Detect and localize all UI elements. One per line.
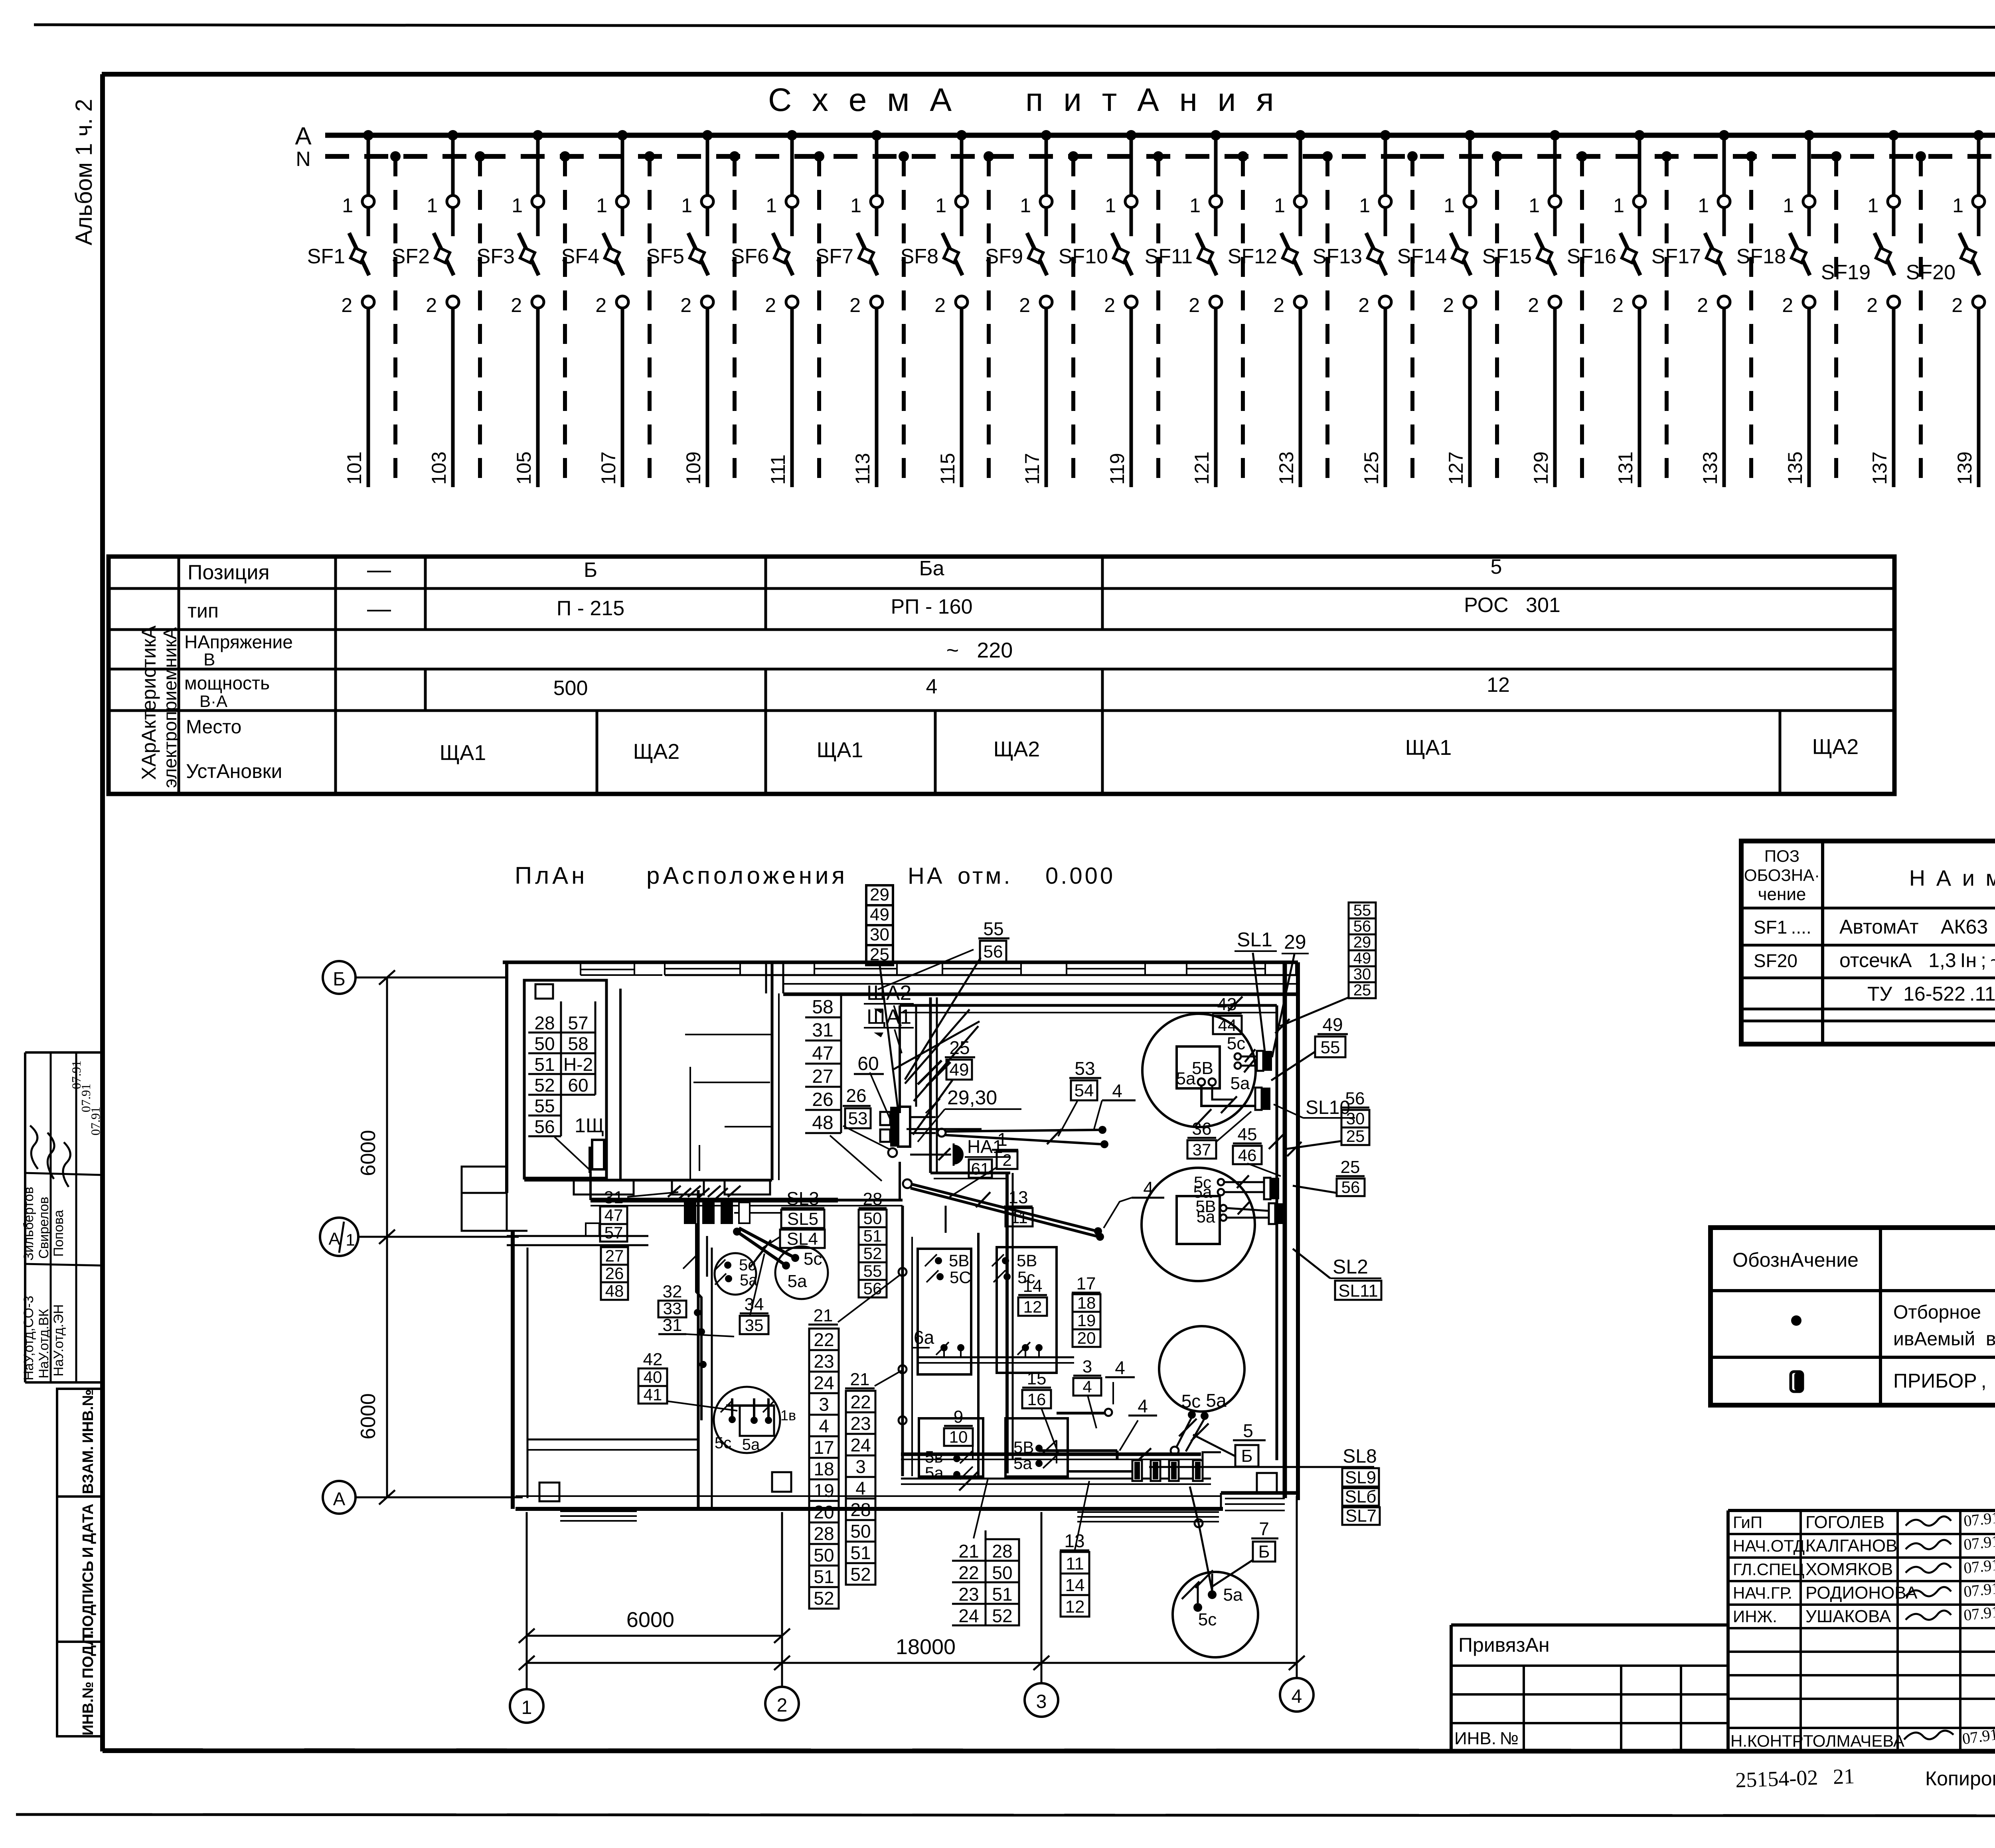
labels 14/12 xyxy=(1018,1294,1047,1296)
equipment box 4 (5v/5a) xyxy=(1005,1418,1068,1477)
wall: bottom windows xyxy=(1225,1498,1285,1499)
stack right top 55/56/29/49/30/25 xyxy=(1349,902,1376,918)
svg-text:53: 53 xyxy=(1075,1058,1095,1079)
bus N xyxy=(325,154,1995,159)
svg-text:П - 215: П - 215 xyxy=(557,597,624,620)
svg-text:25: 25 xyxy=(1341,1157,1360,1177)
svg-text:1: 1 xyxy=(1952,194,1963,217)
legend device symbol xyxy=(1791,1372,1803,1392)
wires instrument row xyxy=(1068,1470,1132,1473)
svg-text:56: 56 xyxy=(1345,1089,1365,1108)
wire from box4 to right xyxy=(1039,1449,1117,1452)
circuit breaker SF18, line 135 xyxy=(1804,130,1814,140)
svg-text:103: 103 xyxy=(428,452,450,485)
labels 45/46 xyxy=(1233,1143,1262,1145)
svg-text:2: 2 xyxy=(1358,294,1369,316)
labels 25/49 xyxy=(945,1056,975,1058)
svg-text:—: — xyxy=(367,595,391,622)
svg-text:ХАрАктеристикА: ХАрАктеристикА xyxy=(138,625,160,780)
svg-text:SF9: SF9 xyxy=(985,245,1023,268)
svg-text:105: 105 xyxy=(513,452,535,485)
svg-text:ИНВ. №: ИНВ. № xyxy=(1454,1729,1519,1748)
leader 53/54 xyxy=(1058,1101,1077,1136)
svg-text:1: 1 xyxy=(1867,194,1878,217)
stack 25/56 (right) xyxy=(1336,1175,1365,1177)
svg-text:Ба: Ба xyxy=(919,557,944,580)
svg-text:2: 2 xyxy=(849,294,861,316)
svg-text:2: 2 xyxy=(1002,1151,1011,1169)
frame top xyxy=(102,72,1995,77)
tank circle 2 (right) xyxy=(1142,1168,1255,1281)
stack top-left room xyxy=(528,1032,561,1034)
svg-text:2: 2 xyxy=(511,294,522,316)
svg-text:3: 3 xyxy=(1036,1691,1047,1712)
riser from panel x2255 xyxy=(899,1005,901,1113)
tank1 wires xyxy=(1241,1056,1257,1058)
svg-text:4: 4 xyxy=(1082,1377,1092,1396)
wire cluster to SL5 xyxy=(734,1212,781,1214)
lower-left room partition xyxy=(527,1439,698,1441)
svg-text:55: 55 xyxy=(1353,902,1371,919)
svg-text:SL1: SL1 xyxy=(1237,928,1272,951)
axis circle B xyxy=(323,961,356,994)
wall: bottom pilasters xyxy=(539,1483,559,1501)
leader 29/49/30/25 to panel xyxy=(880,965,898,1108)
svg-text:14: 14 xyxy=(1023,1276,1043,1296)
riser x2262 down xyxy=(901,1206,904,1476)
svg-text:6000: 6000 xyxy=(626,1608,674,1632)
svg-text:Б: Б xyxy=(333,969,346,990)
svg-text:29: 29 xyxy=(870,885,889,904)
porch xyxy=(462,1167,507,1231)
svg-text:2: 2 xyxy=(1782,294,1793,316)
svg-text:5В: 5В xyxy=(1017,1251,1037,1270)
svg-text:101: 101 xyxy=(343,452,365,485)
svg-text:107: 107 xyxy=(597,452,620,485)
svg-text:18000: 18000 xyxy=(896,1635,956,1659)
svg-text:25154-02 21: 25154-02 21 xyxy=(1735,1764,1855,1792)
svg-text:4: 4 xyxy=(819,1416,829,1436)
svg-text:1Щ: 1Щ xyxy=(575,1114,604,1137)
svg-text:Н.КОНТР: Н.КОНТР xyxy=(1730,1732,1803,1750)
svg-text:131: 131 xyxy=(1614,452,1637,485)
svg-text:137: 137 xyxy=(1869,452,1891,485)
tank circle 1 (top right) xyxy=(1142,1014,1256,1127)
svg-text:07.91: 07.91 xyxy=(1963,1508,1995,1530)
svg-text:SF7: SF7 xyxy=(816,245,853,268)
svg-text:5В: 5В xyxy=(949,1251,969,1270)
svg-text:07.91: 07.91 xyxy=(88,1107,103,1135)
svg-text:57: 57 xyxy=(604,1223,623,1242)
wire pair A to dots xyxy=(938,1129,946,1137)
svg-text:50: 50 xyxy=(992,1562,1012,1583)
tick on bottom tray xyxy=(1133,1448,1151,1465)
stack SL3/SL5/SL4 xyxy=(781,1207,824,1209)
circuit breaker SF4, line 107 xyxy=(617,130,628,140)
svg-text:52: 52 xyxy=(863,1244,882,1263)
svg-text:А: А xyxy=(333,1489,346,1509)
wall x1730 upper xyxy=(689,1067,691,1180)
svg-text:22: 22 xyxy=(850,1392,871,1412)
svg-text:тип: тип xyxy=(188,600,219,622)
terminal cluster in corridor xyxy=(685,1202,695,1223)
svg-text:ЩА2: ЩА2 xyxy=(994,737,1040,761)
svg-text:5: 5 xyxy=(1243,1420,1253,1441)
corridor tray ticks xyxy=(668,1186,681,1197)
wires cluster to pump2 xyxy=(733,1228,741,1236)
privyazan box xyxy=(1451,1623,1728,1627)
svg-text:20: 20 xyxy=(1077,1329,1096,1347)
svg-text:Позиция: Позиция xyxy=(188,561,270,584)
circuit breaker SF19, line 137 xyxy=(1888,130,1899,140)
circuit breaker SF17, line 133 xyxy=(1719,130,1729,140)
svg-text:07.91: 07.91 xyxy=(1963,1556,1995,1577)
svg-text:22: 22 xyxy=(958,1562,979,1583)
dim line 18000 xyxy=(527,1662,1297,1664)
bottom tray xyxy=(901,1453,1201,1456)
instrument row xyxy=(1132,1460,1142,1481)
corridor pilasters xyxy=(574,1180,634,1194)
svg-text:SF20: SF20 xyxy=(1906,261,1955,284)
svg-text:28: 28 xyxy=(850,1499,871,1520)
svg-text:5а: 5а xyxy=(788,1271,807,1291)
svg-text:44: 44 xyxy=(1218,1016,1237,1035)
vzam inv box xyxy=(57,1389,102,1497)
svg-text:32: 32 xyxy=(663,1282,682,1301)
svg-text:SF17: SF17 xyxy=(1651,245,1701,268)
svg-text:Н А и м е н о в А н и е: Н А и м е н о в А н и е xyxy=(1909,865,1995,890)
wall: top outer xyxy=(503,961,1298,964)
pump circle 1 xyxy=(715,1253,756,1295)
label 4 (pair A) xyxy=(1102,1100,1136,1102)
svg-text:133: 133 xyxy=(1699,452,1721,485)
stack 56/30/25 xyxy=(1341,1107,1369,1109)
svg-text:ТУ 16-522 .110-74: ТУ 16-522 .110-74 xyxy=(1867,983,1995,1005)
svg-text:58: 58 xyxy=(568,1033,588,1054)
svg-text:SF11: SF11 xyxy=(1145,245,1193,268)
svg-text:SF14: SF14 xyxy=(1397,245,1447,268)
circuit breaker SF12, line 123 xyxy=(1295,130,1306,140)
svg-text:49: 49 xyxy=(870,905,889,924)
svg-text:1: 1 xyxy=(512,194,523,217)
labels 13/11 xyxy=(1004,1206,1033,1208)
svg-text:6000: 6000 xyxy=(357,1393,380,1439)
svg-text:50: 50 xyxy=(863,1209,882,1228)
wall lower-left room right xyxy=(697,1190,700,1509)
svg-text:22: 22 xyxy=(814,1329,834,1350)
main riser path xyxy=(929,997,932,1173)
svg-text:1: 1 xyxy=(521,1697,532,1718)
corridor tray xyxy=(591,1198,838,1202)
svg-text:SF19: SF19 xyxy=(1821,261,1871,284)
svg-text:НАЧ.ГР.: НАЧ.ГР. xyxy=(1733,1583,1792,1602)
svg-text:5а: 5а xyxy=(740,1271,758,1289)
svg-text:1: 1 xyxy=(997,1129,1007,1150)
svg-text:SL2: SL2 xyxy=(1333,1256,1368,1278)
svg-text:ГиП: ГиП xyxy=(1733,1513,1762,1532)
svg-text:4: 4 xyxy=(1138,1396,1148,1416)
svg-text:SLб: SLб xyxy=(1345,1487,1376,1506)
svg-text:1: 1 xyxy=(1444,194,1455,217)
circuit breaker SF15, line 129 xyxy=(1550,130,1560,140)
corridor lower wall xyxy=(507,1235,648,1237)
svg-text:ивАемый в технологическое о: ивАемый в технологическое оборУдовАние xyxy=(1893,1329,1995,1350)
svg-text:25: 25 xyxy=(949,1037,970,1058)
svg-text:ЩА1: ЩА1 xyxy=(1405,736,1452,760)
svg-text:30: 30 xyxy=(1353,965,1371,983)
stack 17/18/19/20 xyxy=(1072,1292,1100,1294)
svg-text:мощность: мощность xyxy=(184,673,270,693)
svg-text:1: 1 xyxy=(427,194,438,217)
svg-text:Место: Место xyxy=(186,717,241,738)
svg-text:36: 36 xyxy=(1192,1119,1212,1139)
svg-text:21: 21 xyxy=(814,1306,833,1325)
svg-text:2: 2 xyxy=(1443,294,1454,316)
svg-text:2: 2 xyxy=(426,294,437,316)
svg-text:1: 1 xyxy=(346,1230,355,1249)
svg-text:чение: чение xyxy=(1758,885,1806,904)
svg-text:4: 4 xyxy=(1292,1686,1302,1707)
svg-text:50: 50 xyxy=(534,1033,555,1054)
tray: right side vertical xyxy=(1276,1005,1278,1460)
svg-text:41: 41 xyxy=(644,1385,662,1404)
svg-text:56: 56 xyxy=(1341,1178,1360,1196)
label 4 with circle term xyxy=(1105,1376,1135,1378)
X marks on top tray xyxy=(1228,997,1242,1011)
panel ShchA1/ShchA2 xyxy=(890,1107,898,1147)
label 4 second xyxy=(1128,1415,1157,1417)
svg-text:ОБОЗНА·: ОБОЗНА· xyxy=(1744,866,1820,885)
svg-text:49: 49 xyxy=(1322,1014,1343,1035)
svg-text:5а: 5а xyxy=(1231,1074,1250,1093)
svg-text:SF6: SF6 xyxy=(731,245,769,268)
svg-text:57: 57 xyxy=(568,1013,588,1033)
wire pair B xyxy=(903,1179,912,1188)
svg-text:26: 26 xyxy=(846,1085,866,1106)
svg-text:ЩА1: ЩА1 xyxy=(867,1005,911,1029)
svg-text:24: 24 xyxy=(850,1435,871,1455)
svg-text:~ 220: ~ 220 xyxy=(946,638,1013,662)
svg-text:28: 28 xyxy=(814,1523,834,1544)
svg-text:31: 31 xyxy=(812,1020,833,1041)
tank2 instruments xyxy=(1264,1178,1270,1199)
svg-text:ИНВ.№ ПОДЛ.: ИНВ.№ ПОДЛ. xyxy=(80,1631,97,1735)
svg-text:SF1 ....: SF1 .... xyxy=(1754,917,1811,938)
svg-text:48: 48 xyxy=(812,1112,833,1133)
svg-text:5с: 5с xyxy=(804,1249,822,1269)
svg-text:15: 15 xyxy=(1027,1369,1047,1388)
svg-text:SF2: SF2 xyxy=(392,245,430,268)
long stack right (21..52) xyxy=(845,1388,875,1390)
svg-text:5В: 5В xyxy=(1192,1058,1213,1078)
svg-text:12: 12 xyxy=(1487,673,1510,697)
circuit breaker SF14, line 127 xyxy=(1465,130,1475,140)
svg-text:1: 1 xyxy=(1274,194,1285,217)
svg-text:ГОГОЛЕВ: ГОГОЛЕВ xyxy=(1805,1512,1884,1532)
svg-text:отсечкА 1,3 Iн ; ~220 В: отсечкА 1,3 Iн ; ~220 В xyxy=(1839,949,1995,971)
svg-text:19: 19 xyxy=(814,1480,834,1501)
svg-text:2: 2 xyxy=(595,294,606,316)
svg-text:135: 135 xyxy=(1784,452,1806,485)
svg-text:ЩА1: ЩА1 xyxy=(817,738,863,762)
svg-text:3: 3 xyxy=(1082,1357,1092,1376)
wall divider x1935 upper xyxy=(771,962,774,1180)
svg-text:2: 2 xyxy=(777,1695,788,1716)
svg-text:29: 29 xyxy=(1353,934,1371,951)
svg-text:4: 4 xyxy=(1143,1178,1154,1198)
wall: left outer lower xyxy=(511,1231,515,1509)
stack 58/31/47/27/26/48 xyxy=(805,1017,841,1019)
svg-text:1: 1 xyxy=(766,194,777,217)
circuit breaker SF3, line 105 xyxy=(533,130,543,140)
svg-text:ПлАн: ПлАн xyxy=(515,862,588,889)
svg-text:1: 1 xyxy=(935,194,946,217)
svg-text:SF15: SF15 xyxy=(1482,245,1532,268)
svg-text:4: 4 xyxy=(1115,1357,1125,1378)
svg-text:9: 9 xyxy=(954,1407,963,1427)
svg-text:31: 31 xyxy=(663,1315,682,1335)
svg-text:17: 17 xyxy=(814,1437,834,1458)
partitions upper-mid xyxy=(685,1034,773,1035)
tank2 wires xyxy=(1224,1181,1264,1183)
svg-text:37: 37 xyxy=(1193,1140,1211,1159)
svg-text:52: 52 xyxy=(992,1605,1012,1626)
long stack left (21..52) xyxy=(808,1324,838,1326)
svg-text:07.91: 07.91 xyxy=(1963,1532,1995,1554)
svg-text:60: 60 xyxy=(857,1053,879,1074)
svg-text:23: 23 xyxy=(850,1413,871,1434)
axis 3 xyxy=(1041,1512,1043,1683)
svg-text:SF3: SF3 xyxy=(477,245,515,268)
svg-text:48: 48 xyxy=(605,1281,624,1300)
leader from 21-28 stack up xyxy=(974,1479,988,1538)
svg-text:1: 1 xyxy=(1529,194,1540,217)
svg-text:НаУ.отд.ЭН: НаУ.отд.ЭН xyxy=(51,1304,66,1376)
wire from bottom circle up xyxy=(1190,1487,1212,1591)
wall divider x1555 xyxy=(619,989,622,1180)
svg-text:123: 123 xyxy=(1275,452,1298,485)
svg-text:45: 45 xyxy=(1238,1125,1257,1144)
circuit breaker SF9, line 117 xyxy=(1041,130,1051,140)
svg-text:2: 2 xyxy=(1189,294,1200,316)
svg-text:2: 2 xyxy=(934,294,946,316)
label 4 (pair B) xyxy=(1132,1197,1164,1199)
svg-text:5а: 5а xyxy=(1013,1454,1032,1473)
svg-text:SF4: SF4 xyxy=(561,245,599,268)
svg-text:50: 50 xyxy=(850,1521,871,1542)
riser to pump big xyxy=(696,1223,701,1420)
svg-text:58: 58 xyxy=(812,997,833,1018)
svg-text:ЩА1: ЩА1 xyxy=(440,741,486,765)
leader to wall from 25 box top right xyxy=(878,950,974,989)
svg-text:электроприемникА: электроприемникА xyxy=(160,627,180,788)
svg-text:51: 51 xyxy=(863,1226,882,1245)
svg-text:ПривязАн: ПривязАн xyxy=(1458,1634,1550,1656)
svg-text:КопировАл: НесмеяновА, Тлд: КопировАл: НесмеяновА, Тлд xyxy=(1925,1767,1995,1790)
svg-text:23: 23 xyxy=(814,1351,834,1372)
labels 5 B xyxy=(1233,1439,1266,1441)
svg-text:51: 51 xyxy=(850,1542,871,1563)
svg-text:40: 40 xyxy=(644,1368,662,1386)
circuit breaker SF16, line 131 xyxy=(1634,130,1645,140)
labels 34/35 xyxy=(740,1313,768,1315)
svg-text:ТОЛМАЧЕВА: ТОЛМАЧЕВА xyxy=(1803,1732,1904,1750)
svg-text:2: 2 xyxy=(1612,294,1624,316)
svg-text:2: 2 xyxy=(680,294,691,316)
svg-text:УстАновки: УстАновки xyxy=(186,760,282,782)
svg-text:ПРИБОР , РЕГУЛЯТОР: ПРИБОР , РЕГУЛЯТОР xyxy=(1893,1370,1995,1392)
svg-text:SL7: SL7 xyxy=(1345,1506,1377,1526)
labels 7 B xyxy=(1251,1538,1278,1540)
svg-text:12: 12 xyxy=(1065,1597,1085,1617)
svg-text:121: 121 xyxy=(1191,452,1213,485)
svg-text:SL8: SL8 xyxy=(1343,1446,1377,1467)
svg-text:53: 53 xyxy=(848,1109,868,1128)
labels 36/37 xyxy=(1187,1137,1216,1139)
svg-text:НаУ.отд.ВК: НаУ.отд.ВК xyxy=(36,1309,51,1378)
title block xyxy=(1728,1509,1995,1512)
svg-text:5а: 5а xyxy=(1206,1390,1227,1411)
svg-text:SF20: SF20 xyxy=(1754,950,1797,971)
svg-text:1в: 1в xyxy=(780,1407,796,1424)
svg-text:SL3: SL3 xyxy=(786,1188,819,1209)
svg-text:SF12: SF12 xyxy=(1228,245,1277,268)
svg-text:2: 2 xyxy=(1867,294,1878,316)
svg-text:1: 1 xyxy=(1105,194,1116,217)
stack 29/49/30/25 (above panel) xyxy=(866,885,893,905)
svg-text:113: 113 xyxy=(851,453,874,485)
svg-text:29: 29 xyxy=(1284,931,1306,953)
stack 42/40/41 xyxy=(638,1368,667,1370)
equipment box 1 xyxy=(918,1249,971,1374)
labels 3/4 xyxy=(1073,1375,1101,1377)
equipment box 3 (9/10) xyxy=(919,1418,983,1477)
svg-text:2: 2 xyxy=(1104,294,1115,316)
svg-text:55: 55 xyxy=(534,1096,555,1116)
leader 55/56 to panel xyxy=(905,958,981,1080)
svg-text:SF10: SF10 xyxy=(1059,245,1108,268)
svg-text:5с: 5с xyxy=(715,1434,731,1452)
vertical dimension line xyxy=(386,977,388,1497)
svg-text:2: 2 xyxy=(765,294,776,316)
svg-text:ГЛ.СПЕЦ: ГЛ.СПЕЦ xyxy=(1733,1560,1804,1579)
svg-text:1: 1 xyxy=(1189,194,1201,217)
svg-text:49: 49 xyxy=(1353,950,1371,967)
svg-text:47: 47 xyxy=(604,1206,623,1224)
svg-text:5: 5 xyxy=(1491,555,1502,578)
axis circle A1 xyxy=(320,1218,358,1256)
svg-text:46: 46 xyxy=(1238,1146,1257,1165)
svg-text:Попова: Попова xyxy=(51,1210,66,1257)
axis 4 xyxy=(1296,1496,1298,1678)
svg-text:27: 27 xyxy=(812,1066,833,1087)
svg-text:2: 2 xyxy=(1952,294,1963,316)
wall: vestibule jambs xyxy=(765,962,767,993)
svg-text:5а: 5а xyxy=(1197,1207,1215,1226)
equipment box 2 xyxy=(997,1247,1057,1373)
svg-text:54: 54 xyxy=(1075,1081,1094,1100)
svg-text:1: 1 xyxy=(596,194,607,217)
svg-text:11: 11 xyxy=(1066,1554,1084,1574)
svg-text:SL4: SL4 xyxy=(787,1229,818,1249)
labels 55/56 (to panel) xyxy=(978,938,1009,940)
svg-text:Н-2: Н-2 xyxy=(563,1054,593,1075)
axis circle A xyxy=(323,1481,356,1514)
leader 48 down-right xyxy=(830,1135,882,1181)
svg-text:КАЛГАНОВ: КАЛГАНОВ xyxy=(1805,1536,1897,1556)
svg-text:20: 20 xyxy=(814,1502,834,1522)
svg-text:отм.: отм. xyxy=(958,863,1013,889)
